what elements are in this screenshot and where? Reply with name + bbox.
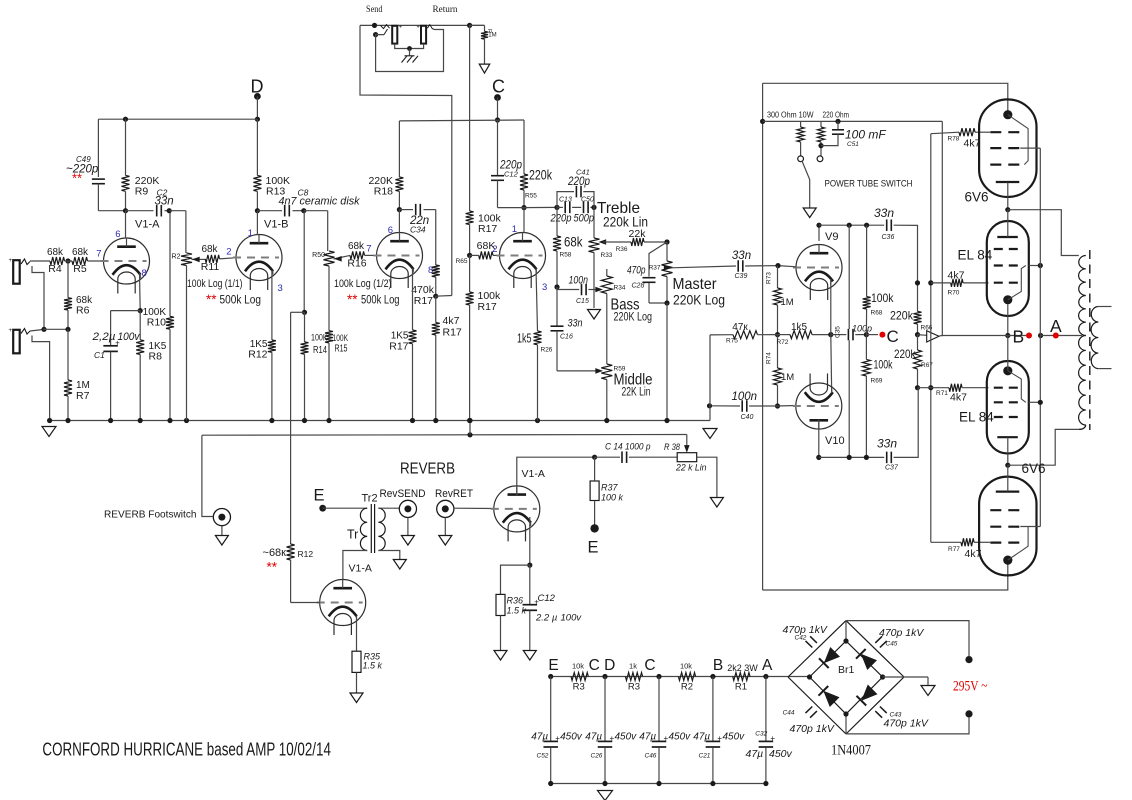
resistor R36 1.5k: [496, 594, 505, 615]
wire to node C: [866, 334, 878, 336]
svg-text:22k: 22k: [629, 228, 647, 240]
svg-text:C12: C12: [538, 593, 556, 604]
capacitor C14 1000p: [595, 456, 620, 458]
svg-text:POWER TUBE SWITCH: POWER TUBE SWITCH: [825, 179, 913, 190]
svg-text:R16: R16: [347, 258, 366, 270]
node J1 sleeve junction: [41, 327, 46, 332]
svg-text:~68к: ~68к: [263, 547, 287, 559]
svg-text:R18: R18: [374, 186, 393, 198]
resistor R58 68k: [556, 207, 558, 236]
svg-text:C34: C34: [410, 225, 426, 235]
svg-text:1: 1: [248, 228, 253, 239]
resistor R26 1k5 (stage4 cathode): [536, 269, 538, 332]
svg-text:V1-A: V1-A: [522, 468, 545, 480]
svg-text:33n: 33n: [155, 196, 174, 208]
capacitor C15 100n bass: [556, 287, 558, 290]
svg-text:100k: 100k: [874, 358, 894, 372]
svg-text:C35: C35: [835, 326, 842, 338]
wire driver cathode: [356, 616, 358, 651]
svg-text:6: 6: [115, 229, 120, 240]
svg-text:1M: 1M: [781, 297, 794, 308]
jack Return: [421, 26, 426, 44]
wire C41 bypass loop: [557, 192, 574, 208]
resistor R55 220k: [523, 120, 525, 174]
jack RevRET: [437, 500, 454, 517]
node R70 line: [915, 280, 920, 285]
svg-text:R17: R17: [443, 327, 462, 339]
bridge outer diamond: [788, 621, 846, 677]
resistor R73 1M: [777, 266, 779, 288]
ground footswitch: [221, 526, 223, 536]
wire J2 tip: [30, 330, 43, 332]
node OT primary top: [1005, 207, 1010, 212]
resistor R77 4k7: [931, 541, 961, 543]
svg-text:22K Lin: 22K Lin: [622, 387, 651, 399]
resistor R38 22k pot: [677, 453, 697, 462]
svg-text:C42: C42: [795, 635, 807, 642]
resistor 300 Ohm 10W: [800, 121, 802, 127]
transformer OT core: [1089, 250, 1091, 430]
svg-text:450v: 450v: [615, 732, 638, 743]
resistor R17 4k7: [435, 296, 437, 322]
resistor R68 100k: [866, 225, 868, 296]
ground PSU: [598, 791, 613, 800]
ground Tr secondary: [393, 560, 406, 570]
wire EL84 upper plate-top: [1007, 210, 1009, 237]
tube V9 phase inverter: [796, 245, 842, 291]
wire to OT centre tap A: [1041, 335, 1082, 337]
svg-text:220K Log: 220K Log: [614, 312, 653, 324]
transformer Tr2 right winding: [378, 508, 385, 550]
svg-text:**: **: [72, 171, 82, 186]
wire plate lead V1-B: [256, 211, 258, 235]
jack REVERB Footswitch: [213, 508, 230, 525]
wire C rail: [399, 119, 524, 122]
svg-text:47µ: 47µ: [639, 732, 656, 743]
capacitor C44 470p: [806, 707, 817, 718]
wire bridge to ground: [883, 676, 928, 678]
svg-text:220p: 220p: [567, 176, 590, 188]
wire 6V6 plate to junction: [1007, 182, 1009, 209]
node V1-B plate junction: [255, 208, 260, 213]
svg-text:R69: R69: [871, 378, 883, 385]
svg-text:R9: R9: [135, 186, 149, 198]
ground R38: [710, 498, 723, 508]
potentiometer R2 100k Log: [181, 253, 192, 266]
capacitor C12 220p: [497, 120, 499, 176]
resistor R75 47k: [710, 334, 733, 336]
wire PSU bottom rail: [551, 783, 766, 785]
wire Tr primary bottom to driver plate: [343, 551, 367, 580]
svg-text:C26: C26: [591, 753, 603, 760]
capacitor C26 47u 450v: [604, 677, 606, 742]
node C35 right: [864, 332, 869, 337]
diode D3 1N4007: [823, 691, 839, 707]
wiper Master to C39: [664, 265, 672, 271]
svg-text:47µ: 47µ: [585, 732, 602, 743]
svg-text:33n: 33n: [877, 437, 897, 451]
svg-text:R77: R77: [948, 546, 960, 553]
jack Send: [392, 26, 397, 44]
svg-text:470p: 470p: [627, 265, 646, 277]
node stage3 plate junction: [397, 207, 402, 212]
capacitor C32 47u 450v: [765, 677, 767, 742]
resistor R78 4k7: [931, 132, 959, 134]
ground 1M: [479, 64, 490, 73]
resistor R17 100k upper: [466, 211, 474, 225]
svg-text:V9: V9: [825, 231, 838, 243]
svg-text:C36: C36: [882, 234, 895, 241]
wire 6V6 bottom screen out: [1020, 526, 1040, 528]
wire junction to send line: [436, 295, 452, 298]
resistor R70 4k7: [931, 282, 951, 284]
svg-text:220K Log: 220K Log: [673, 293, 725, 308]
switch POWER TUBE SWITCH: [798, 156, 804, 162]
svg-text:R7: R7: [76, 390, 90, 402]
svg-text:C45: C45: [886, 641, 898, 648]
resistor R69 100k: [865, 335, 867, 360]
svg-text:1k: 1k: [629, 661, 637, 670]
node master top: [664, 239, 669, 244]
node treble left: [554, 205, 559, 210]
node C40 left: [707, 403, 712, 408]
svg-text:RevRET: RevRET: [435, 488, 473, 500]
svg-text:1M: 1M: [781, 372, 794, 383]
svg-text:4k7: 4k7: [948, 270, 965, 282]
wire C34 down to 470k: [435, 210, 437, 265]
wire AC terminal top: [846, 621, 969, 656]
svg-text:1: 1: [512, 224, 517, 235]
svg-text:4n7 ceramic disk: 4n7 ceramic disk: [279, 196, 361, 208]
node C2 out: [167, 208, 172, 213]
svg-text:R12: R12: [248, 349, 267, 361]
resistor R67 220k: [917, 335, 919, 350]
svg-text:C32: C32: [755, 731, 767, 738]
ground RevSEND: [407, 518, 409, 536]
node R74 bottom: [775, 403, 780, 408]
node master bottom: [664, 300, 669, 305]
node bus tap: [467, 432, 472, 437]
wire D rail: [98, 118, 257, 120]
resistor R7 1M: [67, 329, 69, 380]
wire plate to treble network: [524, 206, 557, 208]
svg-text:**: **: [206, 292, 217, 307]
wire D rail left drop: [97, 119, 99, 177]
svg-text:C 14 1000 p: C 14 1000 p: [605, 442, 651, 453]
diode D1 1N4007: [824, 647, 840, 663]
capacitor C45 470p: [875, 636, 886, 647]
svg-text:EL 84: EL 84: [958, 248, 993, 263]
svg-text:C39: C39: [735, 273, 748, 280]
node R14 top junction: [302, 310, 307, 315]
svg-text:CORNFORD HURRICANE based AMP 1: CORNFORD HURRICANE based AMP 10/02/14: [42, 739, 331, 760]
wire bottom rail to 6V6: [763, 564, 1008, 590]
svg-text:2,2µ: 2,2µ: [91, 331, 115, 343]
node B red: [1026, 333, 1032, 339]
svg-text:R73: R73: [766, 272, 773, 284]
svg-text:+: +: [417, 25, 420, 31]
node bus dots left: [47, 418, 52, 423]
node R37 top: [592, 455, 597, 460]
svg-text:R17: R17: [414, 295, 433, 307]
node V9/V10 cathode junction: [828, 332, 833, 337]
resistor R1 2k2 3W: [733, 673, 750, 681]
wire V9 grid: [778, 266, 797, 267]
svg-text:4k7: 4k7: [950, 392, 967, 404]
wire B+ top to 6V6 grid: [763, 83, 1008, 114]
wire plate lead stage4: [523, 208, 525, 233]
svg-text:B: B: [1013, 327, 1025, 347]
svg-text:1k5: 1k5: [791, 322, 808, 333]
svg-text:100k Log (1/1): 100k Log (1/1): [187, 278, 243, 290]
svg-text:R1: R1: [735, 682, 747, 693]
svg-text:V1-B: V1-B: [264, 219, 288, 231]
svg-text:RevSEND: RevSEND: [380, 488, 426, 500]
svg-text:C44: C44: [783, 710, 795, 717]
node EL84 lower screen: [1038, 400, 1043, 405]
svg-text:R17: R17: [389, 341, 408, 353]
svg-text:R3: R3: [628, 682, 640, 693]
svg-text:C37: C37: [885, 465, 899, 472]
svg-text:R74: R74: [766, 352, 773, 364]
svg-text:R71: R71: [936, 390, 948, 397]
svg-text:C40: C40: [741, 414, 754, 421]
node EL84 plates junction: [1038, 333, 1043, 338]
svg-text:R2: R2: [172, 254, 181, 261]
wire grid bias drop: [930, 134, 932, 543]
ground: [703, 429, 717, 439]
resistor R6 68k: [67, 261, 69, 298]
tube V10 (inverted): [796, 383, 842, 429]
svg-text:R17: R17: [478, 301, 497, 313]
node C8 out: [301, 208, 306, 213]
svg-text:R8: R8: [149, 351, 163, 363]
wire return line down: [469, 25, 471, 211]
wire C35 left plate to plate line: [848, 225, 850, 329]
capacitor C37 33n: [887, 452, 892, 464]
input jack J1: [13, 260, 20, 284]
svg-text:C50: C50: [581, 197, 594, 204]
node bus dots tone: [604, 418, 609, 423]
wiper arrow R50: [334, 255, 351, 259]
svg-text:68k: 68k: [72, 247, 89, 258]
capacitor C49 ~220p: [92, 179, 105, 184]
svg-text:220p: 220p: [550, 213, 572, 225]
svg-text:470p 1kV: 470p 1kV: [790, 723, 835, 735]
resistor R17 100k lower: [469, 255, 471, 292]
svg-text:295V ~: 295V ~: [953, 679, 988, 695]
node CD psu: [602, 674, 607, 679]
capacitor C52 47u 450v: [550, 677, 552, 742]
node V1-A plate junction: [123, 208, 128, 213]
svg-text:6: 6: [388, 225, 393, 236]
ground R35: [350, 693, 363, 703]
resistor R71 4k7: [918, 387, 950, 389]
node V9 plate: [816, 223, 821, 228]
svg-text:220k: 220k: [890, 309, 914, 323]
tube V1-A first stage: [104, 238, 150, 284]
wire to R36: [501, 565, 530, 594]
resistor R12 1K5 (V1-B cathode): [271, 270, 273, 340]
node E terminal: [590, 524, 598, 532]
svg-text:22 k Lin: 22 k Lin: [675, 463, 706, 474]
resistor R2 10k: [678, 673, 695, 681]
wire feedback drop: [941, 121, 943, 335]
node power switch rail: [760, 119, 765, 124]
transformer Tr2 left winding: [360, 508, 367, 550]
bridge Br1 inner diamond: [810, 641, 883, 714]
svg-text:R36: R36: [507, 596, 524, 606]
capacitor C39 33n: [738, 260, 743, 272]
potentiometer R50 500k: [324, 251, 335, 266]
capacitor C21 47u 450v: [712, 677, 714, 742]
wire node to R6 bottom: [43, 328, 68, 330]
svg-text:R75: R75: [726, 338, 738, 345]
ground R36: [494, 651, 507, 661]
wiper arrow R33: [599, 239, 607, 245]
wire Tr sec bottom to ground: [378, 551, 399, 560]
svg-text:C: C: [887, 327, 899, 346]
svg-text:R36: R36: [616, 246, 628, 253]
wire EL84 upper cathode down to B: [1007, 305, 1009, 336]
svg-text:10k: 10k: [680, 661, 692, 670]
svg-text:+: +: [9, 328, 13, 334]
wire switch rail: [763, 120, 943, 122]
wire B+ rail left edge: [762, 83, 764, 590]
wire recovery cathode: [529, 517, 531, 565]
resistor R3 1k: [625, 673, 642, 681]
svg-text:R78: R78: [948, 136, 960, 143]
node stage4 plate junction: [521, 205, 526, 210]
svg-text:1k5: 1k5: [517, 331, 532, 346]
wire J1 sleeve: [32, 266, 44, 329]
ground C12: [523, 651, 536, 661]
resistor R11 68k: [205, 255, 219, 263]
node EL84 upper screen: [1038, 263, 1043, 268]
svg-text:100n: 100n: [732, 391, 758, 403]
svg-text:47µ: 47µ: [746, 748, 764, 760]
svg-text:100k Log (1/2): 100k Log (1/2): [334, 278, 392, 290]
svg-text:500k Log: 500k Log: [361, 295, 400, 307]
wire V10 plate lead: [818, 420, 820, 458]
svg-text:C51: C51: [847, 141, 859, 148]
svg-text:100 k: 100 k: [601, 493, 624, 503]
potentiometer R59 Middle 22K: [601, 364, 612, 380]
svg-text:470p 1kV: 470p 1kV: [879, 627, 924, 639]
jack RevSEND: [399, 500, 416, 517]
wire EL84 plates riser: [1039, 148, 1041, 526]
svg-text:C1: C1: [94, 350, 105, 360]
resistor R8 1K5: [139, 311, 141, 340]
wire C8 out to R50 pot: [304, 210, 328, 212]
wire OT bottom curve: [1079, 425, 1086, 429]
wire feedback/footswitch line: [202, 434, 687, 437]
node C psu: [656, 674, 661, 679]
wire AC terminal bottom: [846, 718, 969, 734]
resistor R4 68k: [50, 257, 65, 265]
svg-text:47µ: 47µ: [693, 732, 710, 743]
svg-text:**: **: [347, 292, 358, 307]
svg-text:R26: R26: [541, 347, 553, 354]
node cathode split: [527, 563, 532, 568]
svg-text:C15: C15: [576, 298, 589, 305]
capacitor C36 33n: [887, 219, 892, 231]
svg-text:~220p: ~220p: [66, 164, 99, 176]
node OT primary bottom: [1005, 463, 1010, 468]
wire C down: [497, 98, 499, 121]
svg-text:47µ: 47µ: [531, 732, 548, 743]
svg-text:E: E: [588, 539, 599, 557]
svg-text:C46: C46: [645, 753, 657, 760]
wire cathode to C1: [111, 310, 141, 312]
wire recovery plate: [517, 457, 595, 495]
wire D down: [256, 96, 258, 119]
svg-text:E: E: [314, 487, 325, 505]
wiper R38: [686, 435, 688, 450]
svg-text:R12: R12: [298, 549, 314, 559]
svg-text:2.2 µ: 2.2 µ: [535, 613, 558, 624]
node bass junction: [554, 284, 559, 289]
svg-text:4k7: 4k7: [443, 315, 460, 327]
svg-text:Send: Send: [366, 4, 383, 15]
capacitor C42 470p: [806, 636, 817, 647]
capacitor C40 100n: [710, 405, 741, 407]
svg-text:Tr: Tr: [347, 528, 358, 542]
resistor R17 1K5 (stage3 cathode): [412, 269, 414, 331]
node R4/R5 junction: [65, 258, 70, 263]
wire Tr sec top to RevSEND: [378, 507, 399, 509]
resistor R3 10k: [571, 673, 588, 681]
node R6 bottom: [65, 327, 70, 332]
wire C8 out down to R14: [303, 211, 305, 313]
resistor R14 100K: [304, 312, 306, 342]
wire node B line: [942, 335, 1029, 337]
resistor R37 100k: [590, 481, 599, 501]
svg-text:Tr2: Tr2: [362, 493, 378, 505]
svg-text:**: **: [267, 560, 278, 575]
wire bus tap: [469, 421, 471, 435]
capacitor C43 470p: [875, 707, 886, 718]
svg-text:C21: C21: [699, 753, 711, 760]
node R65 junction: [467, 253, 472, 258]
svg-text:Return: Return: [433, 4, 458, 15]
svg-text:3: 3: [542, 282, 547, 293]
svg-text:R11: R11: [201, 261, 220, 273]
svg-text:450v: 450v: [669, 732, 692, 743]
wire V9 plate lead: [818, 225, 820, 241]
resistor R12 ~68k: [287, 544, 295, 560]
capacitor C35 100p: [831, 334, 847, 336]
svg-text:V10: V10: [825, 435, 845, 447]
wire OT top lead: [1008, 210, 1079, 256]
svg-text:R65: R65: [456, 258, 468, 265]
resistor R66 220k: [917, 283, 919, 312]
svg-text:R 38: R 38: [664, 442, 681, 453]
tube V1 fourth stage: [500, 233, 546, 279]
wire OT secondary leads: [1098, 306, 1111, 308]
wire E to Tr2: [323, 507, 368, 509]
node A red: [1053, 333, 1059, 339]
wire driver grid: [291, 602, 320, 604]
svg-text:R68: R68: [871, 310, 883, 317]
svg-text:33n: 33n: [874, 206, 894, 220]
svg-text:C13: C13: [559, 197, 572, 204]
svg-text:2k2 3W: 2k2 3W: [727, 663, 758, 673]
resistor 1M return load: [470, 24, 485, 26]
svg-text:100v: 100v: [118, 331, 141, 343]
svg-text:100k: 100k: [871, 291, 894, 305]
capacitor C51 100 mF: [837, 121, 839, 129]
